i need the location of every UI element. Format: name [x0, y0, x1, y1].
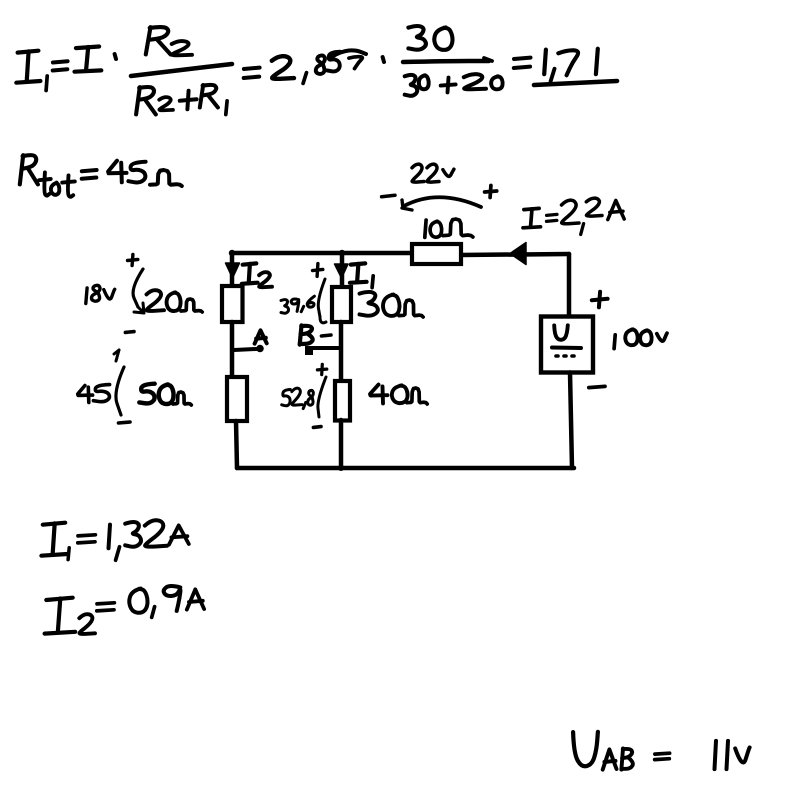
label plus for 18V	[128, 255, 138, 266]
arrow arc for 39,6	[318, 279, 326, 323]
label 50ohm	[139, 384, 191, 405]
label minus for 45	[119, 422, 131, 423]
wire top-left segment	[232, 251, 412, 256]
label plus for 22v	[485, 186, 497, 198]
resistor 20ohm body	[222, 286, 243, 322]
label I = 2,2A	[523, 198, 624, 234]
wire right branch lower	[570, 373, 572, 469]
label 39,6 voltage	[281, 296, 314, 313]
label minus for 18V	[125, 330, 134, 334]
label I2 at left branch	[242, 263, 272, 287]
label I1 at middle branch	[350, 263, 373, 287]
arrow arc for 18V	[133, 269, 144, 313]
label 30ohm	[360, 292, 424, 317]
label 10ohm	[425, 219, 473, 237]
node B tick and square dot	[305, 346, 340, 355]
label minus below 30ohm	[321, 335, 331, 336]
result I2 = 0,9A	[45, 586, 205, 634]
resistor 30ohm body	[332, 287, 351, 322]
wire middle branch upper	[340, 253, 345, 288]
node A tick and dot	[234, 345, 264, 353]
wire top-right segment	[461, 254, 569, 255]
node junction bottom-middle	[338, 465, 344, 471]
arrow arc for 52,8	[318, 377, 326, 417]
wire middle branch middle	[339, 322, 344, 381]
label 20ohm	[147, 290, 203, 312]
result I1 = 1,32A	[41, 520, 188, 560]
wire right branch upper	[567, 254, 572, 317]
wire left branch upper	[230, 253, 235, 288]
label 18V	[86, 285, 115, 303]
label minus below 40ohm left	[313, 425, 321, 429]
resistor 10ohm body	[412, 244, 461, 264]
node junction top-middle	[339, 250, 345, 256]
small arrow above 45	[114, 350, 119, 361]
label node A	[255, 330, 267, 343]
wire left branch middle	[230, 322, 235, 377]
label minus for 22v	[382, 195, 395, 197]
label minus at source	[589, 386, 605, 387]
label 52,8 voltage	[282, 388, 314, 408]
voltage source U body	[541, 317, 593, 373]
formula line 1: I1 = I * R2/(R2+R1) = 2,857 * 30/(30+20) = 1,71	[16, 26, 617, 115]
wire middle branch lower	[339, 420, 344, 468]
arrow arc for 22v	[402, 197, 481, 210]
voltage source U label	[552, 325, 581, 356]
resistor 40ohm body	[335, 381, 350, 421]
formula line 2: Rtot = 45 ohm	[20, 155, 182, 197]
resistor 50ohm body	[227, 377, 247, 421]
arrow arc for 45	[116, 367, 124, 415]
label 100v	[614, 329, 667, 348]
current arrow I1 (down)	[335, 264, 349, 278]
label plus above 30ohm	[313, 264, 323, 277]
label node B	[300, 325, 313, 344]
wire bottom	[237, 466, 574, 471]
label plus above 40ohm	[317, 364, 326, 374]
label 22v	[412, 164, 454, 182]
current arrow I2 (down)	[226, 263, 240, 278]
node junction top-left	[229, 250, 235, 256]
label 40ohm	[370, 385, 427, 404]
wire left branch lower	[236, 421, 237, 468]
label 45 voltage	[78, 385, 110, 403]
result UAB = 11v	[573, 732, 750, 770]
current arrow I (left-pointing)	[510, 243, 526, 265]
label plus at source	[592, 292, 608, 308]
